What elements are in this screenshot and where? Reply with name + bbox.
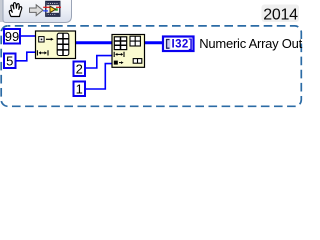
svg-text:2014: 2014 bbox=[263, 6, 298, 23]
svg-text:2: 2 bbox=[76, 62, 83, 77]
svg-text:I32]: I32] bbox=[172, 39, 193, 51]
svg-text:5: 5 bbox=[6, 54, 13, 69]
svg-text:1: 1 bbox=[76, 82, 83, 97]
svg-text:99: 99 bbox=[5, 29, 19, 44]
svg-text:Numeric Array Out: Numeric Array Out bbox=[199, 36, 302, 51]
